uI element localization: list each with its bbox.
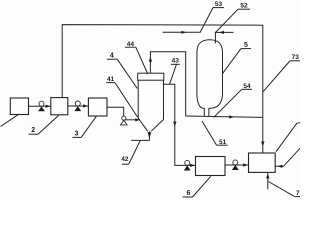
svg-text:73: 73 [292, 54, 300, 61]
svg-text:5: 5 [244, 42, 248, 49]
svg-text:43: 43 [172, 58, 180, 65]
svg-text:52: 52 [240, 2, 248, 9]
svg-text:41: 41 [107, 76, 115, 83]
svg-text:4: 4 [110, 52, 114, 59]
svg-text:2: 2 [31, 127, 35, 134]
svg-text:53: 53 [215, 1, 223, 8]
svg-text:51: 51 [219, 139, 227, 146]
svg-text:42: 42 [121, 156, 129, 163]
svg-text:71: 71 [296, 190, 300, 197]
svg-text:44: 44 [127, 41, 135, 48]
svg-text:3: 3 [75, 130, 79, 137]
svg-text:6: 6 [186, 190, 190, 197]
svg-text:54: 54 [243, 83, 251, 90]
